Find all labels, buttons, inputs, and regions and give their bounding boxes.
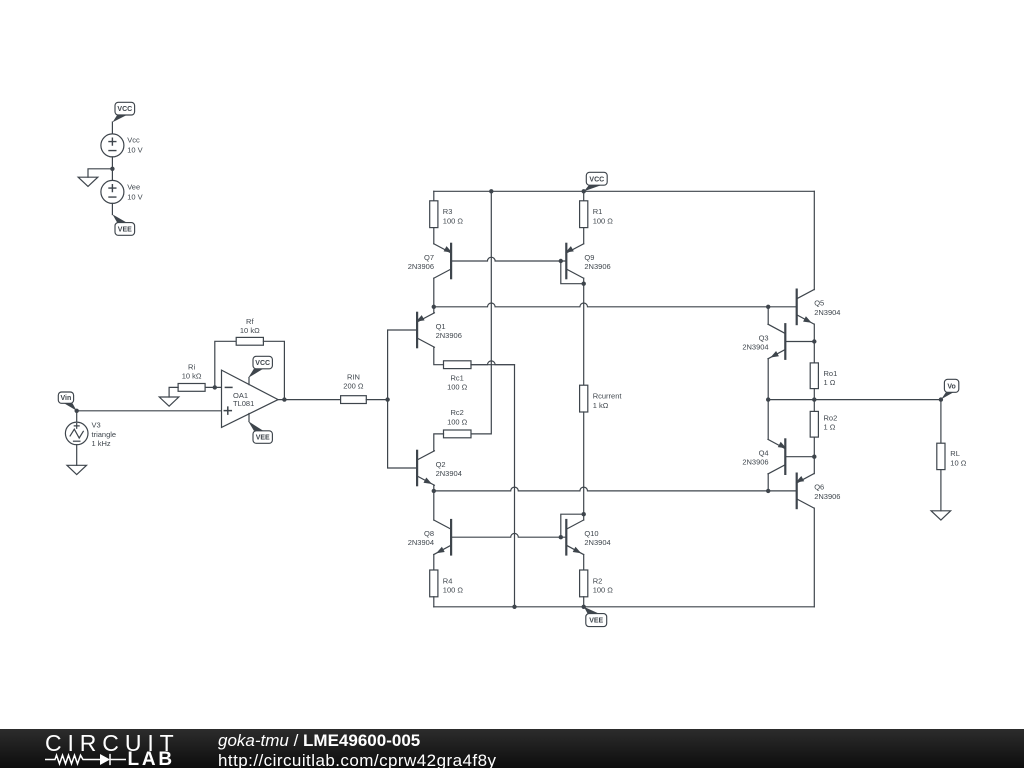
svg-text:Vee: Vee (127, 182, 140, 191)
resistor RL (937, 443, 945, 469)
op-amp VCC pointer (248, 369, 263, 378)
wire Rc1 right (471, 361, 515, 365)
transistor Q3 (784, 324, 786, 359)
svg-text:2N3906: 2N3906 (742, 458, 768, 467)
op-amp VEE pin wire (248, 414, 250, 422)
wire Rcurrent down (583, 412, 585, 514)
net label VEE (rail) (586, 614, 607, 627)
op-amp VCC pin wire (248, 378, 250, 385)
wire cross 1 (471, 191, 491, 434)
svg-text:2N3904: 2N3904 (436, 469, 462, 478)
wire bottom rail (VEE) (434, 606, 815, 608)
wire Q1 collector to Rc1 (434, 347, 444, 365)
resistor R1 (580, 201, 588, 228)
wire Q6 emitter (813, 457, 815, 474)
CircuitLab logo text (45, 730, 180, 757)
net label VEE (op-amp) (253, 431, 272, 444)
footer title text (218, 731, 420, 751)
wire (813, 437, 815, 457)
wire Q4 base (785, 456, 814, 458)
wire (433, 228, 435, 244)
wire Q4 collector (767, 474, 769, 491)
wire (813, 400, 815, 412)
wire Rf to output (263, 341, 284, 399)
svg-text:VEE: VEE (589, 618, 603, 625)
resistor RIN (341, 396, 367, 404)
svg-text:2N3904: 2N3904 (584, 538, 610, 547)
resistor Ri (178, 384, 205, 392)
transistor Q9 (565, 244, 567, 278)
node Vo line left (766, 397, 770, 401)
wire (111, 203, 113, 214)
svg-text:100 Ω: 100 Ω (443, 216, 464, 225)
VCC flag pointer (113, 115, 127, 122)
node op-amp output (282, 397, 286, 401)
svg-text:Q5: Q5 (814, 299, 824, 308)
wire Q9 collector down (583, 278, 585, 385)
svg-text:100 Ω: 100 Ω (447, 417, 468, 426)
wire Q7 collector (433, 278, 435, 307)
svg-text:RIN: RIN (347, 373, 360, 382)
wire Q10 diode loop (561, 514, 584, 537)
wire Q3 base (785, 341, 814, 343)
op-amp VEE pointer (248, 421, 263, 431)
svg-text:Q9: Q9 (584, 253, 594, 262)
resistor Ro2 (810, 411, 818, 437)
CircuitLab footer bar (0, 729, 1024, 768)
VEE flag pointer (rail) (584, 607, 599, 614)
voltage source Vcc (101, 134, 124, 157)
wire (111, 157, 113, 181)
ground (V3) (67, 465, 87, 474)
wire Q10 emitter to R2 (583, 555, 585, 571)
wire Q8 base (451, 533, 566, 537)
wire RIN to input node (366, 399, 387, 401)
svg-text:1 Ω: 1 Ω (824, 423, 836, 432)
wire (813, 389, 815, 400)
svg-text:100 Ω: 100 Ω (443, 586, 464, 595)
svg-text:Vo: Vo (947, 383, 955, 390)
wire Vin to op-amp + (77, 410, 222, 412)
wire RL to ground (940, 470, 942, 511)
svg-text:200 Ω: 200 Ω (343, 382, 364, 391)
svg-text:100 Ω: 100 Ω (593, 586, 614, 595)
svg-text:Vin: Vin (61, 395, 72, 402)
wire output to RIN (278, 399, 341, 401)
node upper rail left (432, 305, 436, 309)
svg-text:Q1: Q1 (436, 322, 446, 331)
svg-text:Q3: Q3 (759, 333, 769, 342)
transistor Q1 (416, 313, 418, 347)
wire (583, 597, 585, 607)
svg-text:100 Ω: 100 Ω (593, 216, 614, 225)
svg-text:2N3904: 2N3904 (408, 538, 434, 547)
transistor Q10 (565, 520, 567, 555)
node Vo line / Ro junction (812, 397, 816, 401)
node bottom rail / cross wire (512, 605, 516, 609)
Vin flag pointer (64, 403, 77, 410)
svg-text:Q7: Q7 (424, 253, 434, 262)
wire Q7 base (451, 257, 566, 261)
node between Vcc and Vee (110, 167, 114, 171)
wire (813, 342, 815, 363)
wire Q8 collector (433, 491, 435, 520)
wire (76, 411, 78, 423)
net label Vin (58, 392, 73, 403)
wire Q8 emitter to R4 (433, 555, 435, 571)
VCC flag pointer (rail) (584, 185, 601, 191)
wire (583, 191, 585, 201)
svg-text:2N3906: 2N3906 (436, 331, 462, 340)
resistor Rf (236, 337, 263, 345)
net label VEE (supply) (115, 223, 135, 236)
net label VCC (supply) (115, 102, 135, 115)
node input (385, 397, 389, 401)
wire Q6 collector (813, 508, 815, 607)
svg-text:RL: RL (950, 449, 960, 458)
svg-text:Q8: Q8 (424, 529, 434, 538)
wire Q5 emitter (813, 324, 815, 341)
svg-text:VCC: VCC (255, 360, 270, 367)
svg-text:10 Ω: 10 Ω (950, 458, 966, 467)
wire top rail (VCC) (434, 190, 815, 192)
svg-text:10 kΩ: 10 kΩ (240, 326, 260, 335)
net label VCC (op-amp) (253, 356, 272, 369)
transistor Q8 (450, 520, 452, 555)
node Q2 emitter (432, 489, 436, 493)
wire Q5 collector from rail (813, 191, 815, 289)
svg-text:10 V: 10 V (127, 145, 142, 154)
wire to ground (88, 169, 112, 177)
wire Q3 collector (767, 307, 769, 324)
wire Vo line (768, 399, 941, 401)
transistor Q5 (796, 290, 798, 325)
svg-text:Rc1: Rc1 (451, 373, 464, 382)
svg-text:TL081: TL081 (233, 399, 254, 408)
resistor Rc2 (444, 430, 472, 438)
resistor R2 (580, 570, 588, 597)
svg-text:VCC: VCC (589, 176, 604, 183)
wire Q1 base (388, 330, 418, 468)
svg-text:Rc2: Rc2 (451, 408, 464, 417)
svg-text:2N3904: 2N3904 (814, 308, 840, 317)
transistor Q7 (450, 244, 452, 278)
wire Q3 emitter (767, 359, 769, 400)
node Q9 collector (582, 282, 586, 286)
svg-text:Vcc: Vcc (127, 135, 140, 144)
node Ro2 / Q4 base / Q6 emitter (812, 455, 816, 459)
transistor Q4 (784, 439, 786, 474)
ground (RL) (931, 511, 951, 520)
node Q7/Q9 base (559, 259, 563, 263)
svg-text:Q2: Q2 (436, 460, 446, 469)
svg-text:R1: R1 (593, 207, 603, 216)
wire lower rail (434, 487, 797, 491)
wire (433, 191, 435, 201)
net label Vo (944, 379, 958, 392)
wire Q10 collector (583, 514, 585, 520)
svg-text:10 kΩ: 10 kΩ (182, 371, 202, 380)
svg-text:1 Ω: 1 Ω (824, 378, 836, 387)
wire (76, 445, 78, 466)
wire cross 2 (471, 365, 515, 607)
wire (583, 228, 585, 244)
svg-text:100 Ω: 100 Ω (447, 383, 468, 392)
svg-text:1 kHz: 1 kHz (92, 439, 111, 448)
ground (supply) (78, 177, 98, 186)
svg-text:VCC: VCC (117, 106, 132, 113)
svg-text:2N3906: 2N3906 (408, 262, 434, 271)
node Q8/Q10 base (559, 535, 563, 539)
svg-text:R2: R2 (593, 576, 603, 585)
svg-text:1 kΩ: 1 kΩ (593, 401, 609, 410)
wire Rc2 left (434, 434, 444, 451)
wire (111, 122, 113, 134)
svg-text:Q4: Q4 (759, 449, 769, 458)
net label VCC (rail) (586, 172, 607, 185)
wire Ri to ground (169, 387, 178, 397)
svg-text:R4: R4 (443, 576, 453, 585)
svg-text:Q10: Q10 (584, 529, 598, 538)
resistor R4 (430, 570, 438, 597)
wire Vo to RL (940, 400, 942, 444)
svg-text:VEE: VEE (118, 227, 132, 234)
svg-text:10 V: 10 V (127, 192, 142, 201)
svg-text:V3: V3 (92, 421, 101, 430)
node Q4 collector junction (766, 489, 770, 493)
svg-text:2N3906: 2N3906 (814, 492, 840, 501)
svg-text:Q6: Q6 (814, 483, 824, 492)
resistor Rcurrent (580, 385, 588, 412)
wire upper mid rail (434, 303, 797, 307)
svg-text:2N3904: 2N3904 (742, 343, 768, 352)
node top rail / cross wire (489, 189, 493, 193)
resistor R3 (430, 201, 438, 228)
wire Q1 emitter (433, 307, 435, 313)
transistor Q6 (796, 474, 798, 509)
wire Q9 diode loop (561, 261, 584, 284)
ground (Ri) (159, 397, 179, 406)
node Q3 collector junction (766, 305, 770, 309)
svg-text:Rcurrent: Rcurrent (593, 392, 623, 401)
wire feedback up (215, 341, 236, 387)
node top rail / R1 (582, 189, 586, 193)
transistor Q2 (416, 451, 418, 485)
svg-text:R3: R3 (443, 207, 453, 216)
Vo flag pointer (941, 392, 953, 399)
svg-text:Ri: Ri (188, 362, 195, 371)
resistor Ro1 (810, 363, 818, 389)
node Q10 collector (582, 512, 586, 516)
op-amp OA1 (222, 370, 279, 427)
wire Q2 emitter (433, 485, 435, 491)
VEE flag pointer (113, 214, 127, 222)
node inverting input (213, 385, 217, 389)
wire (433, 597, 435, 607)
node bottom rail / R2 (582, 605, 586, 609)
node Vo (939, 397, 943, 401)
logo resistor-diode squiggle (40, 750, 175, 770)
svg-text:VEE: VEE (256, 435, 270, 442)
svg-text:Rf: Rf (246, 317, 254, 326)
resistor Rc1 (444, 361, 472, 369)
svg-text:Ro1: Ro1 (824, 369, 838, 378)
wire Ri to node (205, 386, 221, 388)
svg-text:2N3906: 2N3906 (584, 262, 610, 271)
footer url text (218, 751, 496, 771)
node Vin (75, 409, 79, 413)
voltage source V3 (triangle) (65, 422, 88, 445)
wire Q4 emitter (767, 400, 769, 440)
svg-text:Ro2: Ro2 (824, 413, 838, 422)
voltage source Vee (101, 180, 124, 203)
svg-text:triangle: triangle (92, 430, 117, 439)
node Q5 emitter / Q3 base (812, 339, 816, 343)
